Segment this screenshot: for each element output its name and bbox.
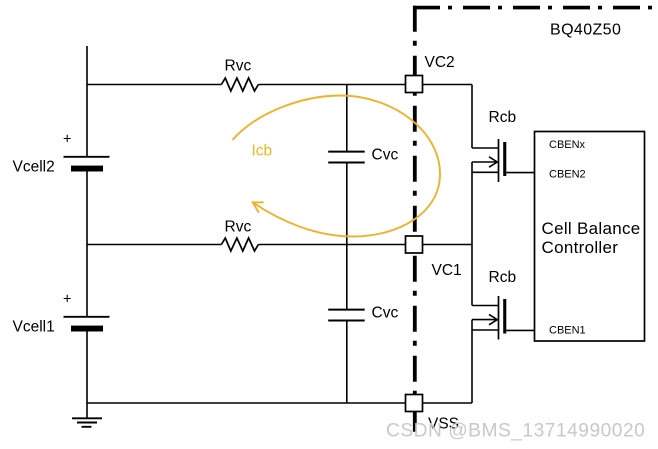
svg-text:Icb: Icb	[252, 143, 273, 160]
svg-text:Rvc: Rvc	[225, 219, 252, 236]
transistor Q1 (upper cell-balance FET, Rcb)	[472, 139, 535, 182]
capacitor Cvc (top)	[328, 152, 365, 163]
svg-text:Rvc: Rvc	[225, 58, 252, 75]
Cell Balance Controller box U1	[535, 132, 645, 342]
svg-text:Cell Balance: Cell Balance	[542, 219, 641, 238]
svg-text:Vcell1: Vcell1	[13, 319, 55, 336]
node VSS pin square	[406, 395, 423, 412]
svg-text:Vcell2: Vcell2	[13, 159, 55, 176]
svg-text:CSDN @BMS_13714990020: CSDN @BMS_13714990020	[386, 421, 645, 442]
svg-text:VC2: VC2	[425, 54, 455, 71]
svg-text:+: +	[63, 132, 71, 148]
wire: top horizontal VC2 net (y=84.5)	[87, 84, 472, 86]
wire: bottom horizontal VSS net (y=403)	[87, 402, 472, 404]
Icb arrowhead	[253, 202, 264, 212]
wire: middle horizontal VC1 net (y=244.5)	[87, 244, 472, 246]
svg-text:Controller: Controller	[542, 238, 619, 257]
svg-text:BQ40Z50: BQ40Z50	[550, 22, 621, 39]
svg-text:VC1: VC1	[432, 262, 462, 279]
resistor Rvc (top)	[221, 78, 258, 91]
device boundary dash-dot vertical (BQ40Z50 left edge)	[413, 6, 417, 438]
resistor Rvc (middle)	[221, 238, 258, 251]
svg-text:+: +	[63, 292, 71, 308]
battery Vcell1	[64, 317, 110, 332]
wire: capacitor chain vertical (x=346.8)	[346, 85, 348, 404]
ground	[72, 418, 102, 427]
node VC2 pin square	[406, 76, 423, 93]
svg-text:Rcb: Rcb	[489, 109, 517, 126]
svg-text:CBENx: CBENx	[549, 139, 586, 151]
svg-text:Cvc: Cvc	[372, 147, 399, 164]
svg-text:CBEN2: CBEN2	[549, 169, 586, 181]
wire: inner vertical between FETs (x=472)	[471, 85, 473, 404]
svg-text:Cvc: Cvc	[372, 305, 399, 322]
svg-text:CBEN1: CBEN1	[549, 325, 586, 337]
transistor Q2 (lower cell-balance FET, Rcb)	[472, 296, 535, 340]
capacitor Cvc (bottom)	[328, 310, 365, 321]
node VC1 pin square	[406, 236, 423, 253]
svg-text:Rcb: Rcb	[489, 269, 517, 286]
wire: left battery-stack vertical (x=87)	[86, 46, 88, 418]
battery Vcell2	[64, 157, 110, 172]
Icb current loop (orange)	[233, 96, 441, 237]
device boundary dash-dot horizontal (BQ40Z50 top edge)	[413, 6, 658, 10]
